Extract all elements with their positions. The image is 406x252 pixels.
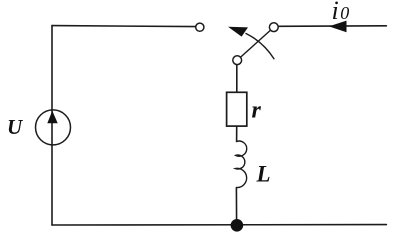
current source U (circle) — [36, 110, 71, 145]
wire: top-right horizontal from switch to right terminal — [279, 25, 387, 28]
wire: switch bottom contact down to resistor — [236, 64, 238, 92]
svg-text:i: i — [332, 0, 339, 25]
current source U arrow head — [47, 111, 57, 123]
wire: left vertical branch through source U — [51, 26, 53, 225]
wire: inductor to bottom node — [235, 188, 237, 226]
svg-text:r: r — [252, 98, 262, 124]
switch motion arrow head — [228, 27, 248, 37]
wire: bottom horizontal — [52, 224, 386, 226]
resistor r — [227, 92, 247, 126]
switch motion arc — [246, 33, 275, 59]
node: switch lower contact circle — [233, 56, 242, 65]
inductor L — [235, 141, 247, 187]
switch blade between lower and upper-right contacts — [241, 30, 271, 57]
node: bottom junction dot — [231, 219, 244, 232]
wire: top-left horizontal from source branch to left switch contact — [52, 26, 196, 27]
svg-text:U: U — [7, 115, 24, 139]
arrow: i0 current direction on top-right wire — [329, 21, 347, 33]
node: left open contact circle — [196, 23, 204, 31]
svg-text:L: L — [256, 162, 271, 187]
wire: resistor to inductor — [236, 126, 238, 141]
node: switch upper-right contact circle — [269, 23, 278, 32]
svg-text:0: 0 — [340, 3, 349, 23]
